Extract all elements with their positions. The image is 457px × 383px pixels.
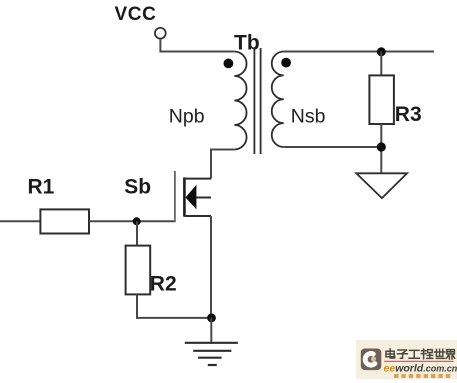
svg-text:VCC: VCC xyxy=(115,4,157,25)
node bottom junction xyxy=(377,142,386,151)
wire R2 bottom to source junction xyxy=(137,294,212,318)
VCC terminal circle xyxy=(155,28,166,39)
glyph zi xyxy=(398,350,408,358)
watermark logo square xyxy=(361,349,382,371)
resistor R3 xyxy=(369,75,394,124)
glyph dian xyxy=(386,349,395,358)
node top junction xyxy=(377,47,386,56)
svg-text:Npb: Npb xyxy=(169,105,205,127)
transistor Q1 drain lead xyxy=(184,178,211,180)
transistor Q1 body arrow xyxy=(186,185,197,210)
wire junction to ground xyxy=(210,318,212,343)
wire secondary top rail xyxy=(284,51,434,53)
wire top junction to R3 xyxy=(380,52,382,76)
watermark logo dot xyxy=(371,356,376,361)
transistor Q1 source lead xyxy=(184,215,211,217)
resistor R1 xyxy=(40,209,89,233)
wire source down to junction xyxy=(210,216,212,318)
watermark underline xyxy=(384,360,453,362)
wire primary bottom to drain xyxy=(211,150,234,179)
watermark logo C xyxy=(365,354,375,366)
primary polarity dot xyxy=(224,59,234,69)
glyph cheng xyxy=(421,349,433,359)
node source junction xyxy=(207,314,216,323)
wire VCC to transformer primary top xyxy=(160,39,234,52)
node Sb xyxy=(133,217,141,225)
resistor R2 xyxy=(126,246,151,295)
secondary polarity dot xyxy=(281,58,291,68)
ground (triangle) xyxy=(356,173,407,198)
wire R3 to bottom junction and ground xyxy=(380,124,382,173)
transformer core xyxy=(253,48,255,154)
svg-text:Nsb: Nsb xyxy=(291,106,326,128)
watermark slogan dashes xyxy=(394,374,450,378)
glyph gong xyxy=(409,350,419,358)
watermark title glyphs xyxy=(386,349,455,359)
glyph shi xyxy=(435,349,445,358)
svg-text:Sb: Sb xyxy=(124,176,151,199)
transistor Q1 body lead xyxy=(196,197,211,199)
transformer primary winding Npb xyxy=(234,52,246,150)
transistor Q1 gate bar xyxy=(174,171,176,222)
svg-text:R1: R1 xyxy=(28,176,55,199)
wire Sb node to R2 xyxy=(136,221,138,245)
svg-text:eeworld.com.cn: eeworld.com.cn xyxy=(384,363,457,375)
svg-text:R3: R3 xyxy=(395,103,422,126)
watermark background xyxy=(356,340,457,379)
svg-text:R2: R2 xyxy=(150,273,177,296)
ground (earth) xyxy=(185,343,238,365)
transistor Q1 channel bar xyxy=(183,177,186,216)
wire left input to R1 xyxy=(0,220,40,222)
wire secondary bottom to R3 xyxy=(284,146,382,148)
glyph jie xyxy=(447,350,455,359)
wire R1 to gate xyxy=(89,220,175,222)
transformer secondary winding Nsb xyxy=(272,51,284,147)
